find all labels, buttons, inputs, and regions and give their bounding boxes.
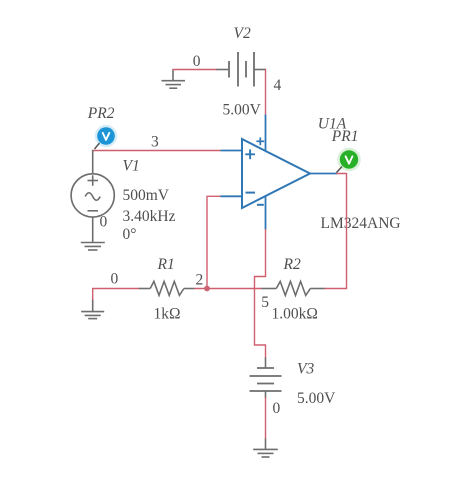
U1A inverting input lead (pin 2) — [221, 195, 243, 197]
svg-text:500mV: 500mV — [123, 187, 170, 204]
svg-text:PR2: PR2 — [87, 105, 115, 122]
source V1 (AC sine source) — [71, 150, 114, 243]
svg-text:0: 0 — [100, 214, 108, 231]
U1A non-inverting input lead (pin 3) — [221, 150, 243, 152]
U1A V+ power lead (pin 4) — [265, 115, 267, 152]
svg-text:V1: V1 — [123, 158, 140, 175]
svg-text:0: 0 — [111, 271, 119, 288]
ground symbol GND4 (below V3) — [253, 439, 278, 458]
wire net 0: ground to R1 left — [93, 289, 140, 301]
ground symbol GND1 (top left, net 0) — [162, 70, 186, 89]
probe PR1 (green voltage probe) — [337, 148, 361, 173]
plus marker (V+ power pin) — [256, 140, 264, 142]
resistor R1 — [139, 281, 194, 295]
wire net 2: R1 right to junction and R2 left — [194, 288, 262, 290]
svg-text:5.00V: 5.00V — [223, 102, 262, 119]
wire net 0: V3 bottom to ground — [265, 397, 267, 439]
svg-text:PR1: PR1 — [331, 128, 359, 145]
svg-text:LM324ANG: LM324ANG — [321, 215, 401, 232]
probe PR2 (blue voltage probe) — [95, 125, 118, 149]
svg-text:3.40kHz: 3.40kHz — [123, 208, 176, 225]
plus marker (non-inverting input) — [245, 153, 255, 155]
wire net 2 feedback: junction up to U1A inverting input — [207, 196, 221, 288]
battery V3 — [250, 358, 282, 399]
svg-text:R2: R2 — [283, 256, 301, 273]
resistor R2 — [262, 281, 325, 295]
wire net 4: V2 positive to U1A V+ pin — [265, 69, 267, 115]
minus marker (inverting input) — [246, 192, 256, 194]
svg-text:4: 4 — [274, 77, 282, 94]
svg-text:5.00V: 5.00V — [297, 390, 336, 407]
svg-text:V2: V2 — [234, 25, 251, 42]
wire net 5: U1A V- down to V3 top — [255, 229, 266, 358]
svg-text:0°: 0° — [123, 226, 137, 243]
svg-text:V3: V3 — [297, 361, 314, 378]
wire output net: U1A output down to R2 right — [324, 174, 347, 289]
svg-text:2: 2 — [196, 272, 204, 289]
svg-text:3: 3 — [151, 134, 159, 151]
minus marker (V- power pin) — [257, 204, 264, 206]
wire net 0: ground to V2 negative — [172, 69, 217, 71]
ground symbol GND2 (below V1) — [81, 243, 105, 251]
op-amp U1A (LM324 section) — [221, 115, 338, 230]
svg-text:1kΩ: 1kΩ — [154, 306, 181, 323]
wire net 3: V1 top to U1A non-inverting input — [93, 150, 221, 152]
U1A output lead (pin 1) — [310, 173, 337, 175]
junction node 2 dot — [204, 286, 210, 292]
battery V2 — [217, 52, 267, 87]
svg-text:5: 5 — [261, 294, 269, 311]
svg-text:0: 0 — [273, 400, 281, 417]
ground symbol GND3 (left of R1, net 0) — [81, 299, 104, 319]
svg-text:R1: R1 — [157, 256, 175, 273]
svg-text:0: 0 — [193, 53, 201, 70]
U1A V- power lead (pin 11) — [265, 196, 267, 229]
svg-text:1.00kΩ: 1.00kΩ — [272, 306, 318, 323]
